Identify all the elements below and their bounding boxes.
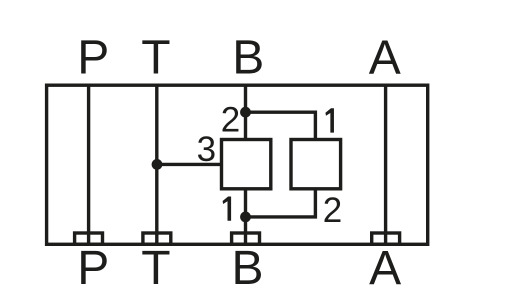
svg-text:3: 3 xyxy=(197,130,216,169)
port symbol B xyxy=(232,233,260,244)
wire: branch node 1 to valve block U2 pin 2 xyxy=(246,189,316,217)
wire: port line P xyxy=(87,85,90,244)
svg-text:B: B xyxy=(232,32,264,85)
port symbol T xyxy=(143,233,171,244)
svg-text:P: P xyxy=(77,242,109,295)
port symbol P xyxy=(75,233,103,244)
wire: port line T xyxy=(155,85,158,244)
svg-text:T: T xyxy=(141,32,170,85)
valve block U2 (right square) xyxy=(291,140,341,189)
svg-text:A: A xyxy=(369,32,401,85)
svg-text:2: 2 xyxy=(323,191,342,230)
wire: port T to valve block U1 pin 3 xyxy=(157,163,222,166)
wire: port line B upper segment xyxy=(244,85,247,139)
port symbol A xyxy=(372,233,400,244)
enclosure outline xyxy=(47,85,428,244)
junction dot at node 1 xyxy=(240,212,251,223)
valve block U1 (left square) xyxy=(222,140,271,189)
junction dot on T line at pin 3 xyxy=(152,159,163,170)
svg-text:P: P xyxy=(77,32,109,85)
pin label 1 (upper) xyxy=(325,108,334,132)
wire: port line A xyxy=(384,85,387,244)
wire: port line B lower segment xyxy=(244,189,247,245)
wire: branch node 2 to valve block U2 pin 1 xyxy=(246,112,316,139)
svg-text:2: 2 xyxy=(221,101,240,140)
pin label 1 (lower) xyxy=(223,197,232,221)
svg-text:T: T xyxy=(141,242,170,295)
svg-text:B: B xyxy=(231,242,263,295)
svg-text:A: A xyxy=(369,242,401,295)
junction dot at node 2 xyxy=(240,107,251,118)
